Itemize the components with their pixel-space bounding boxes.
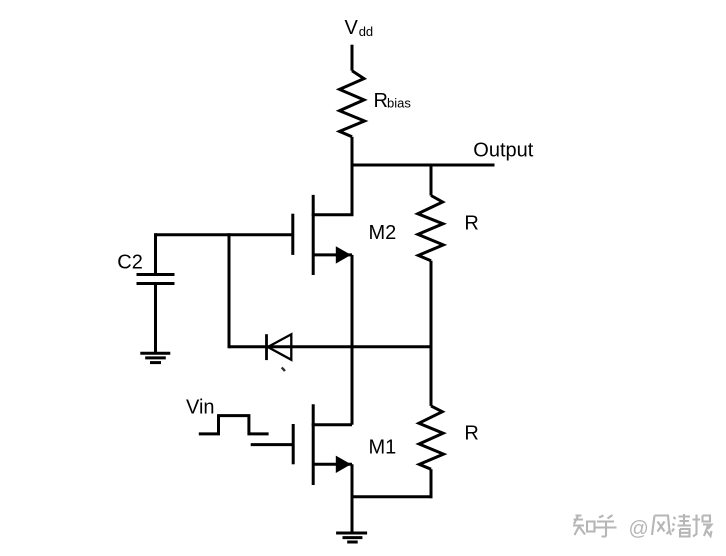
- label M1: [369, 437, 397, 459]
- svg-text:M2: M2: [369, 222, 397, 244]
- resistor R (lower): [419, 406, 444, 469]
- svg-text:Vin: Vin: [186, 397, 215, 419]
- transistor M2 channel bar: [312, 195, 315, 275]
- label R (upper): [464, 213, 478, 235]
- wire Rbias bottom to output node: [351, 137, 354, 167]
- wire R1 bottom to diode rail: [430, 261, 433, 349]
- capacitor C2 bottom plate: [137, 282, 175, 285]
- svg-text:R: R: [464, 213, 478, 235]
- wire M1 gate lead: [251, 443, 294, 446]
- transistor M2 source lead: [313, 253, 352, 256]
- svg-text:V: V: [345, 17, 359, 39]
- wire C2/gate rail: [156, 233, 293, 236]
- wire Vdd stub: [351, 45, 354, 71]
- watermark at-sign: [629, 518, 649, 540]
- node Output label: [473, 139, 533, 161]
- transistor M1 source arrow: [336, 456, 351, 473]
- capacitor C2 top plate: [137, 273, 175, 276]
- diode cathode bar: [265, 334, 268, 360]
- transistor M1 channel bar: [312, 404, 315, 485]
- char hu: [596, 515, 617, 537]
- wire R2 bottom to bottom rail corner: [430, 469, 433, 498]
- label R (lower): [464, 423, 478, 445]
- Vin pulse waveform: [199, 416, 269, 434]
- wire C2 bottom lead: [154, 284, 157, 353]
- svg-text:dd: dd: [359, 24, 373, 39]
- wire gate-rail drop to diode rail: [228, 233, 231, 348]
- char qing: [672, 514, 691, 537]
- label Vin: [186, 397, 215, 419]
- char feng: [652, 516, 671, 536]
- transistor M2 gate bar: [291, 214, 294, 255]
- label C2: [117, 251, 143, 273]
- ground (under M1): [336, 533, 367, 542]
- svg-text:C2: C2: [117, 251, 143, 273]
- watermark zhihu logo text: [573, 515, 617, 537]
- svg-text:@: @: [629, 518, 649, 540]
- resistor Rbias: [340, 71, 365, 137]
- transistor M1 gate bar: [292, 424, 295, 464]
- wire bottom rail: [352, 495, 433, 498]
- stray tick mark: [282, 368, 285, 372]
- char zhi: [573, 515, 585, 535]
- wire output rail: [351, 164, 495, 167]
- transistor M2 source arrow: [336, 246, 351, 263]
- resistor R (upper): [418, 196, 444, 261]
- svg-text:bias: bias: [387, 96, 411, 111]
- wire diode rail to R2 top: [430, 347, 433, 406]
- label Rbias: [374, 90, 412, 112]
- ground (under C2): [140, 353, 170, 362]
- svg-text:M1: M1: [369, 437, 397, 459]
- wire C2 top lead: [154, 233, 157, 274]
- transistor M1 drain lead: [312, 423, 352, 426]
- transistor M2 drain lead: [312, 165, 352, 215]
- label M2: [369, 222, 397, 244]
- wire output node to R1 top: [430, 165, 433, 196]
- transistor M1 source lead: [313, 463, 352, 466]
- diode triangle: [268, 334, 292, 360]
- svg-text:R: R: [374, 90, 388, 112]
- node Vdd label: [345, 17, 374, 39]
- char yang: [693, 515, 712, 537]
- wire diode rail: [229, 345, 431, 348]
- wire M2 source down through diode node to M1 drain: [351, 255, 354, 425]
- wire M1 source down to ground: [351, 464, 354, 532]
- svg-text:Output: Output: [473, 139, 533, 161]
- svg-text:R: R: [464, 423, 478, 445]
